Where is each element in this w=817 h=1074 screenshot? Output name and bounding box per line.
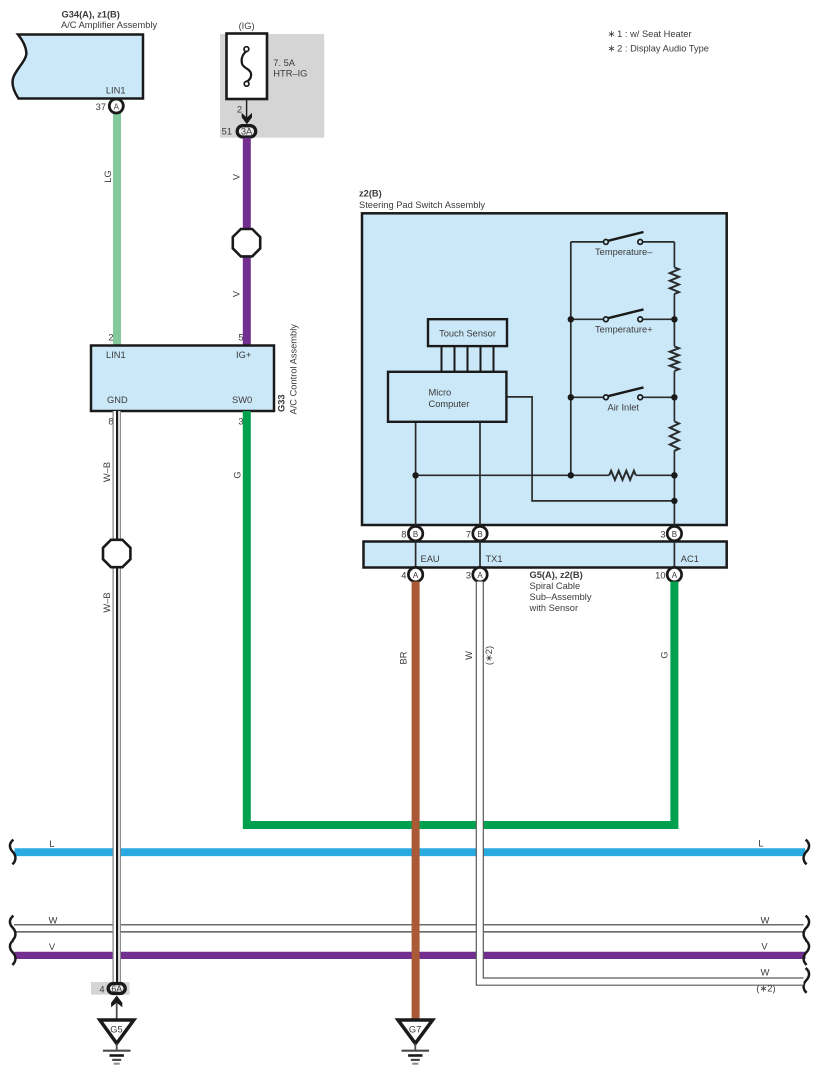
- svg-text:W–B: W–B: [102, 592, 112, 612]
- svg-text:W: W: [761, 915, 770, 925]
- svg-text:Touch Sensor: Touch Sensor: [439, 329, 496, 339]
- svg-text:TX1: TX1: [486, 554, 503, 564]
- svg-text:Sub–Assembly: Sub–Assembly: [530, 592, 592, 602]
- svg-text:Spiral Cable: Spiral Cable: [530, 581, 581, 591]
- svg-text:3: 3: [660, 530, 665, 540]
- svg-text:LG: LG: [103, 170, 113, 182]
- svg-text:(∗2): (∗2): [756, 984, 775, 994]
- svg-text:L: L: [758, 839, 763, 849]
- svg-text:4: 4: [99, 985, 104, 995]
- svg-text:G: G: [659, 651, 669, 658]
- svg-text:Air Inlet: Air Inlet: [608, 403, 640, 413]
- svg-text:EAU: EAU: [421, 554, 440, 564]
- svg-text:BR: BR: [398, 651, 408, 664]
- svg-text:V: V: [231, 290, 241, 297]
- svg-text:LIN1: LIN1: [106, 350, 126, 360]
- svg-text:4: 4: [401, 571, 406, 581]
- svg-text:A/C Control Assembly: A/C Control Assembly: [289, 324, 299, 415]
- svg-text:W: W: [761, 967, 770, 977]
- svg-text:IG+: IG+: [236, 350, 251, 360]
- svg-text:B: B: [477, 530, 482, 539]
- svg-text:2: 2: [108, 333, 113, 343]
- svg-text:7: 7: [466, 530, 471, 540]
- svg-text:A: A: [672, 571, 678, 580]
- svg-text:L: L: [49, 839, 54, 849]
- svg-text:Temperature–: Temperature–: [595, 247, 653, 257]
- svg-text:3: 3: [466, 571, 471, 581]
- svg-text:3A: 3A: [241, 127, 253, 137]
- svg-text:Temperature+: Temperature+: [595, 325, 653, 335]
- svg-text:Micro: Micro: [429, 388, 452, 398]
- svg-text:G: G: [232, 471, 242, 478]
- svg-text:Computer: Computer: [429, 399, 470, 409]
- svg-text:B: B: [672, 530, 677, 539]
- svg-text:GND: GND: [107, 395, 128, 405]
- svg-text:V: V: [49, 942, 56, 952]
- svg-text:2: 2: [237, 105, 242, 115]
- svg-text:AC1: AC1: [681, 554, 699, 564]
- svg-text:SW0: SW0: [232, 395, 252, 405]
- svg-text:7. 5A: 7. 5A: [273, 58, 296, 68]
- svg-text:HTR–IG: HTR–IG: [273, 69, 307, 79]
- svg-text:A: A: [114, 103, 120, 112]
- svg-text:∗ 2 : Display Audio Type: ∗ 2 : Display Audio Type: [608, 44, 709, 54]
- svg-text:5: 5: [238, 333, 243, 343]
- svg-text:W–B: W–B: [102, 462, 112, 482]
- svg-text:Steering Pad Switch Assembly: Steering Pad Switch Assembly: [359, 200, 485, 210]
- svg-text:G34(A), z1(B): G34(A), z1(B): [62, 10, 120, 20]
- svg-text:with Sensor: with Sensor: [529, 603, 579, 613]
- svg-text:51: 51: [222, 127, 232, 137]
- svg-text:(∗2): (∗2): [484, 646, 494, 665]
- svg-text:z2(B): z2(B): [359, 189, 382, 199]
- svg-text:LIN1: LIN1: [106, 86, 126, 96]
- svg-text:V: V: [761, 941, 768, 951]
- svg-text:10: 10: [655, 571, 665, 581]
- svg-text:V: V: [231, 173, 241, 180]
- svg-text:A: A: [413, 571, 419, 580]
- svg-text:∗ 1 : w/ Seat Heater: ∗ 1 : w/ Seat Heater: [608, 29, 692, 39]
- svg-text:G5: G5: [110, 1025, 122, 1035]
- svg-text:G33: G33: [277, 394, 287, 412]
- svg-text:B: B: [413, 530, 418, 539]
- svg-text:A/C Amplifier Assembly: A/C Amplifier Assembly: [61, 20, 157, 30]
- svg-text:G5(A), z2(B): G5(A), z2(B): [530, 570, 583, 580]
- svg-text:6A: 6A: [111, 984, 122, 994]
- svg-text:A: A: [477, 571, 483, 580]
- svg-text:W: W: [49, 915, 58, 925]
- svg-text:(IG): (IG): [239, 21, 255, 31]
- svg-text:W: W: [464, 651, 474, 660]
- svg-text:8: 8: [401, 530, 406, 540]
- svg-text:G7: G7: [409, 1025, 421, 1035]
- svg-text:3: 3: [238, 417, 243, 427]
- svg-text:37: 37: [96, 102, 106, 112]
